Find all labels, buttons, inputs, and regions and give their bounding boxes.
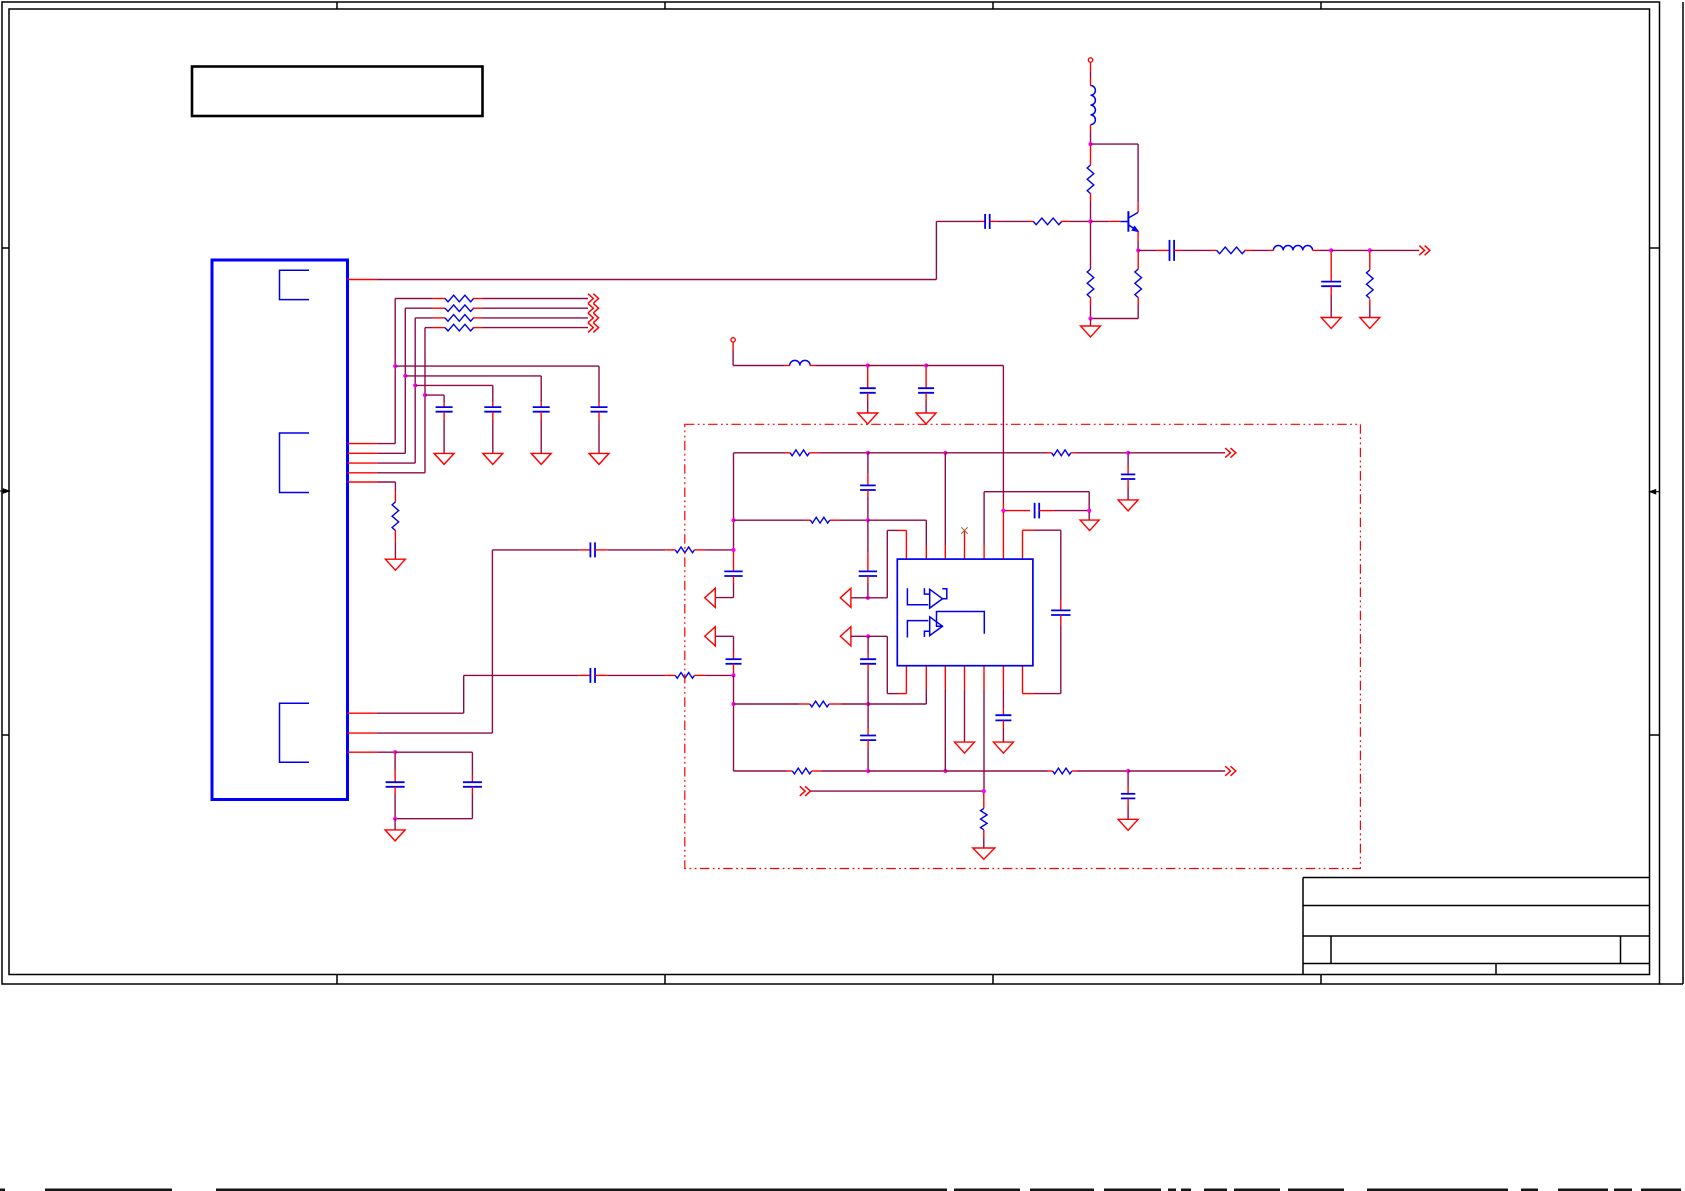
wire R35 to L2	[1244, 249, 1252, 251]
node gnd net	[1088, 316, 1092, 320]
output port chevron row 4	[588, 323, 593, 333]
node port RT	[866, 596, 870, 600]
capacitor C52 (row1 shunt)	[1127, 455, 1129, 467]
capacitor C42 (bypass)	[925, 368, 927, 389]
connector pin-group bracket 3	[280, 703, 310, 762]
node P4	[1087, 509, 1091, 513]
capacitor C21 (series, IN2)	[589, 668, 591, 683]
wire resistor R12 to port	[473, 307, 483, 309]
port RT	[840, 588, 851, 607]
capacitor C24 (right)	[463, 781, 482, 783]
resistor R35	[1217, 247, 1246, 254]
node P2	[924, 363, 928, 367]
wire emitter to C32	[1138, 249, 1156, 251]
wire C31 to R32	[990, 220, 997, 222]
connector pin stub group2-4	[348, 472, 378, 474]
wire row3 right	[829, 703, 841, 705]
wire row4 to node row4-b	[868, 770, 945, 772]
wire riser 4	[424, 328, 426, 473]
wire loop bottom	[395, 818, 472, 820]
wire cap C14 to ground	[443, 412, 445, 420]
resistor R54 (row3)	[810, 701, 829, 707]
wire pin1 to base network	[377, 279, 936, 281]
wire RX to node	[810, 790, 983, 792]
wire IN1 line	[492, 549, 578, 551]
wire row2 right	[830, 519, 840, 521]
wire IN2 line	[464, 674, 579, 676]
ground below C60	[993, 742, 1013, 753]
node row1-c	[1126, 451, 1130, 455]
connector J1	[212, 260, 348, 800]
node B (base)	[1088, 219, 1092, 223]
capacitor C56 (col868 portRB-row3)	[867, 636, 869, 652]
resistor R11	[445, 295, 474, 302]
resistor R55 (row4)	[792, 768, 811, 774]
wire node G to RF output port	[1370, 249, 1420, 251]
transistor Q1	[1120, 221, 1128, 223]
wire node F to node G	[1331, 249, 1370, 251]
wire hook RT to chip pin1 top	[868, 597, 887, 599]
resistor R57 (RX shunt)	[983, 793, 985, 808]
row3 wire	[734, 703, 799, 705]
ground Q1	[1081, 326, 1101, 337]
wire to ground pinC	[394, 819, 396, 830]
wire node A to R31	[1090, 146, 1092, 165]
wire VDD rail	[733, 365, 785, 367]
wire emitter	[1137, 231, 1139, 241]
IC U1 output routing	[937, 612, 985, 634]
wire R56 to port	[1072, 770, 1077, 772]
wire R22 into box	[695, 549, 706, 551]
wire tap 3 to cap column	[415, 384, 493, 386]
wire port RB node	[851, 635, 868, 637]
ground below C12	[531, 453, 551, 464]
wire C24 bottom	[471, 787, 473, 794]
ground below R15	[385, 559, 405, 570]
port LT (audio out left)	[705, 588, 716, 607]
connector pin stub group2-1	[348, 443, 378, 445]
wire cap C12 to ground	[540, 412, 542, 420]
node IN1 entry	[731, 548, 735, 552]
wire cap C11 to ground	[598, 412, 600, 420]
row1 wire left	[734, 452, 786, 454]
capacitor C58 (row4 shunt)	[1127, 773, 1129, 786]
ground below C11	[589, 453, 609, 464]
module boundary (dash-dot box)	[685, 424, 1361, 868]
resistor R33 (emitter)	[1137, 252, 1139, 269]
node A	[1088, 142, 1092, 146]
IC U1 amplifier 2	[930, 617, 943, 636]
wire R31 to node B	[1090, 193, 1092, 201]
wire emitter gnd net	[1091, 318, 1139, 320]
connector pin 1 stub	[348, 279, 378, 281]
wire tap 4 to cap column	[425, 394, 444, 396]
inductor L2	[1273, 245, 1312, 250]
node F	[1329, 248, 1333, 252]
wire riser 2 to resistor	[405, 307, 432, 309]
capacitor C54 (col867 row2-port)	[867, 520, 869, 551]
node row4-a	[866, 769, 870, 773]
capacitor C12	[533, 406, 550, 408]
resistor R22 (IN1 entry)	[675, 547, 694, 553]
wire pin6 top stub	[1002, 512, 1004, 559]
output port chevron row 2	[588, 303, 593, 313]
capacitor C31 (series base)	[981, 220, 985, 222]
node E (emitter)	[1136, 248, 1140, 252]
wire riser 3	[414, 318, 416, 463]
zone tick right 1	[1650, 247, 1660, 249]
capacitor C13	[484, 406, 501, 408]
wire port LB to cap	[715, 635, 733, 637]
empty label box	[192, 67, 483, 117]
wire chip pin3 bottom to row4	[944, 666, 946, 690]
node tap 2	[403, 374, 407, 378]
wire riser to base line	[935, 221, 937, 279]
wire C60 to ground	[1002, 720, 1004, 728]
wire chip pin5 bottom to RX node	[983, 666, 985, 690]
ground at node P4	[1080, 520, 1099, 531]
ground below C23	[385, 830, 405, 841]
node tap 1	[393, 364, 397, 368]
wire pin to riser 4	[377, 472, 425, 474]
terminal VDD	[731, 338, 735, 342]
wire pinB to IN1 riser	[377, 732, 492, 734]
wire cap C13 to ground	[492, 412, 494, 420]
resistor R34 (base lower divider)	[1090, 223, 1092, 269]
node row4-b	[943, 769, 947, 773]
wire node P1 to node P2	[868, 365, 926, 367]
zone tick right 2	[1650, 734, 1660, 736]
connector pin stub group3-3	[348, 751, 378, 753]
power riser down	[1002, 366, 1004, 503]
connector pin stub group3-1	[348, 712, 378, 714]
wire tap 1 to cap column	[395, 365, 599, 367]
port out2 chevron	[1225, 766, 1230, 776]
wire L2 to node F	[1313, 249, 1320, 251]
connector pin stub group2-5	[348, 481, 378, 483]
port RX chevron	[800, 786, 805, 796]
wire row2 to chip pin2 top	[868, 519, 926, 521]
node P1	[866, 363, 870, 367]
row2 wire	[731, 518, 735, 522]
node RX	[982, 789, 986, 793]
wire C21 to R21	[595, 674, 608, 676]
wire left riser lower (IN2 to row4)	[733, 675, 735, 771]
wire node row1-c to port	[1128, 452, 1225, 454]
wire row4 right	[945, 770, 1047, 772]
wire pin5	[377, 481, 395, 483]
capacitor C33 (shunt)	[1330, 252, 1332, 282]
node pinC	[393, 750, 397, 754]
resistor R51 (row1)	[790, 450, 809, 456]
zone tick left 2	[2, 734, 9, 736]
capacitor C53 (IN1 port)	[733, 552, 735, 572]
wire to port RT	[851, 597, 868, 599]
title block	[1302, 878, 1304, 975]
resistor R53 (row2)	[810, 517, 829, 523]
zone tick top 1	[336, 2, 338, 9]
resistor R14	[445, 324, 474, 331]
connector pin-group bracket 1	[280, 270, 310, 299]
capacitor C60	[995, 714, 1011, 716]
ground below C52	[1118, 500, 1138, 511]
zone tick top 2	[664, 2, 666, 9]
node port RB	[866, 634, 870, 638]
node gnd net pinC	[393, 817, 397, 821]
wire resistor R11 to port	[473, 298, 483, 300]
wire to port LT	[715, 597, 733, 599]
wire riser 1	[394, 299, 396, 444]
connector pin stub group3-2	[348, 732, 378, 734]
ground below C42	[916, 413, 936, 424]
capacitor C57 (col868 row3-row4)	[867, 704, 869, 728]
zone tick top 3	[992, 2, 994, 9]
wire node row4-c to port	[1128, 770, 1225, 772]
wire row1 mid	[809, 452, 819, 454]
wire row3 to chip pin2 bottom	[868, 703, 926, 705]
clipped footer text line	[0, 1189, 5, 1191]
capacitor C55	[726, 658, 742, 660]
ground below C41	[858, 413, 878, 424]
resistor R36 (shunt)	[1369, 252, 1371, 270]
connector pin-group bracket 2	[280, 433, 310, 493]
wire left riser (rows1-2 to IN1)	[733, 453, 735, 550]
wire hook RB to chip pin1 bottom	[868, 635, 887, 637]
wire C59 to pin7 bottom	[1060, 615, 1062, 626]
zone tick left 1	[2, 247, 9, 249]
wire pinC	[377, 751, 395, 753]
port RF out chevron	[1419, 246, 1424, 256]
wire riser 4 to resistor	[425, 327, 433, 329]
terminal VCC	[1088, 58, 1092, 62]
wire pinC loop top	[395, 751, 472, 753]
wire pin to riser 3	[377, 462, 415, 464]
wire node P4 to ground	[1088, 512, 1090, 520]
zone tick bottom 2	[664, 975, 666, 985]
wire node P3 to C43	[1005, 510, 1030, 512]
wire chip pin4 bottom to ground	[964, 666, 966, 690]
ground below C14	[434, 453, 454, 464]
wire chip pin6 bottom to C60	[1002, 666, 1004, 690]
wire VDD down	[732, 342, 734, 350]
output port chevron row 1	[588, 294, 593, 304]
port out1 chevron	[1225, 448, 1230, 458]
node row1-a	[866, 451, 870, 455]
inductor L4 (power)	[790, 360, 810, 365]
resistor R21 (IN2 entry)	[675, 673, 694, 679]
output port chevron row 3	[588, 313, 593, 323]
node IN2 entry	[731, 673, 735, 677]
capacitor C14	[436, 406, 453, 408]
wire L4 to node P1	[810, 365, 815, 367]
ground below C13	[483, 453, 503, 464]
wire resistor R13 to port	[473, 317, 483, 319]
wire node B to Q1 base	[1091, 220, 1109, 222]
ground below R57	[973, 848, 995, 859]
resistor R32	[1033, 218, 1062, 225]
node row3	[866, 702, 870, 706]
zone tick top 4	[1320, 2, 1322, 9]
IC U1 body	[897, 559, 1033, 666]
wire R52 to port	[1071, 452, 1076, 454]
connector pin stub group2-3	[348, 462, 378, 464]
wire VCC to L1	[1090, 62, 1092, 72]
centering arrow right	[1656, 491, 1660, 493]
node row3 left	[731, 702, 735, 706]
page right edge line	[1682, 2, 1684, 984]
zone tick bottom 4	[1320, 975, 1322, 985]
node tap 4	[423, 393, 427, 397]
resistor R13	[445, 315, 474, 322]
capacitor C43 (series)	[1034, 503, 1036, 519]
node row4-c	[1126, 769, 1130, 773]
node row2	[866, 518, 870, 522]
zone tick bottom 1	[336, 975, 338, 985]
wire C43 to node P4	[1039, 510, 1053, 512]
wire to ground Q1	[1090, 319, 1092, 327]
wire resistor R14 to port	[473, 327, 483, 329]
wire pin to riser 2	[377, 452, 405, 454]
resistor R52 (row1 right)	[1052, 450, 1071, 456]
IC U1 amplifier 1	[930, 589, 943, 608]
resistor R15	[392, 502, 399, 531]
resistor R31	[1087, 165, 1094, 194]
wire node A to collector	[1091, 143, 1139, 145]
wire chip pin3 top to row1	[944, 453, 946, 545]
wire riser 1 to resistor	[395, 298, 432, 300]
ground below C58	[1118, 819, 1138, 830]
zone tick bottom 3	[992, 975, 994, 985]
wire R32 to node B	[1061, 220, 1070, 222]
centering arrow left	[0, 490, 4, 492]
wire node P2 to power riser	[926, 365, 1003, 367]
sheet inner border frame	[9, 9, 1650, 975]
resistor R56 (row4 right)	[1053, 768, 1072, 774]
wire L1 to node A	[1090, 125, 1092, 132]
capacitor C59 (right feedback)	[1051, 609, 1070, 611]
wire chip pin5 top jog	[983, 545, 985, 559]
capacitor C22 (series, IN1)	[589, 542, 591, 557]
capacitor C23 (left)	[394, 754, 396, 770]
node row1-b	[943, 451, 947, 455]
inductor L1	[1091, 86, 1096, 125]
capacitor C32 (series output)	[1169, 240, 1171, 261]
wire riser 3 to resistor	[415, 317, 432, 319]
wire R21 into box	[695, 674, 706, 676]
ground below C33	[1321, 318, 1341, 329]
node G	[1368, 248, 1372, 252]
resistor R12	[445, 305, 474, 312]
wire chip pin7 top loop	[1022, 530, 1024, 559]
wire C22 to R22	[595, 549, 608, 551]
wire riser 2	[404, 308, 406, 453]
no-connect pin4 top	[964, 532, 966, 560]
ground below pin4	[955, 742, 975, 753]
wire row4 mid	[812, 770, 822, 772]
port LB	[705, 627, 716, 646]
ground below R36	[1360, 318, 1380, 329]
wire row1 right	[945, 452, 1046, 454]
row4 wire left	[734, 770, 788, 772]
node tap 3	[413, 383, 417, 387]
port RB	[840, 627, 851, 646]
capacitor C11	[591, 406, 608, 408]
capacitor C41 (bypass)	[867, 368, 869, 389]
wire pinA to IN2 riser	[377, 712, 464, 714]
capacitor C51 (col867 rows1-2)	[867, 453, 869, 474]
wire row1 to node row1-b	[868, 452, 945, 454]
wire C32 to R35	[1174, 249, 1181, 251]
connector pin stub group2-2	[348, 452, 378, 454]
wire R15 to ground	[394, 530, 396, 541]
node P3 (power at pin6)	[1001, 509, 1005, 513]
wire pin to riser 1	[377, 443, 395, 445]
wire tap 2 to cap column	[405, 375, 541, 377]
